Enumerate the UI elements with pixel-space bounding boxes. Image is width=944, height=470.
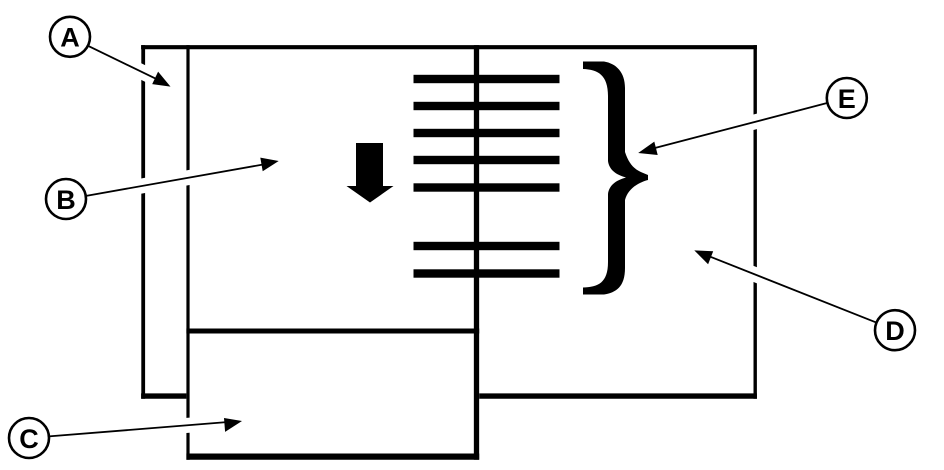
svg-text:A: A [60, 23, 80, 53]
svg-text:D: D [885, 316, 905, 346]
svg-text:B: B [56, 185, 76, 215]
svg-text:E: E [838, 84, 856, 114]
svg-text:C: C [19, 424, 39, 454]
